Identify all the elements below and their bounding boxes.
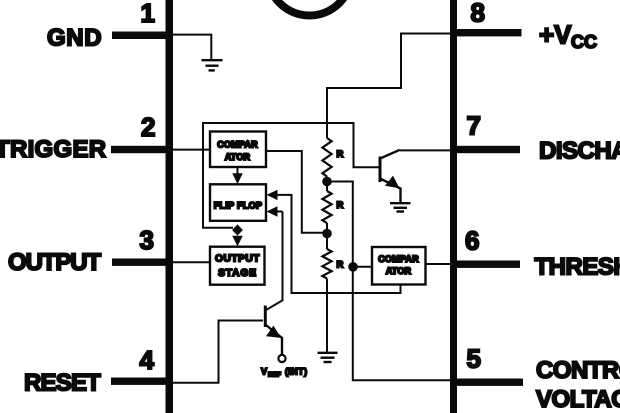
wire pin2 to comparator U1: [170, 149, 211, 151]
Q1 emitter arrowhead: [385, 176, 400, 189]
transistor Q2 (reset) base bar: [264, 306, 267, 328]
wire node to U2 input: [353, 266, 372, 268]
wire comparator U2 to pin 6: [425, 263, 453, 265]
wire flip flop node to Q1 base (feedback loop): [203, 123, 379, 228]
svg-text:TRIGGER: TRIGGER: [0, 136, 106, 163]
svg-text:CC: CC: [571, 32, 597, 52]
svg-text:STAGE: STAGE: [218, 268, 257, 279]
svg-text:R: R: [337, 260, 344, 271]
Q2 emitter: [265, 325, 282, 356]
resistor R1: [322, 138, 331, 177]
resistor R2: [322, 191, 331, 223]
arrowhead into flip flop (lower): [267, 206, 278, 216]
arrow U1 to flip flop: [237, 167, 239, 174]
IC package left edge: [166, 0, 174, 413]
svg-text:6: 6: [465, 226, 479, 256]
ground (Q1 emitter): [390, 203, 411, 211]
svg-text:1: 1: [141, 0, 155, 28]
transistor Q1 (discharge) base bar: [379, 157, 382, 183]
svg-text:V: V: [261, 366, 267, 376]
svg-text:OUTPUT: OUTPUT: [215, 254, 260, 265]
wire R3 to ground: [326, 279, 328, 353]
pin 1 lead: [112, 32, 170, 40]
svg-text:THRESHOLD: THRESHOLD: [535, 254, 620, 281]
svg-text:7: 7: [467, 111, 481, 141]
svg-text:DISCHARGE: DISCHARGE: [539, 138, 620, 165]
flip flop output node (diamond): [232, 224, 243, 235]
svg-text:CONTROL: CONTROL: [536, 357, 620, 384]
flip flop U3 box: [210, 184, 266, 221]
svg-text:R: R: [337, 149, 344, 160]
svg-text:RESET: RESET: [24, 370, 101, 397]
ground (pin 1): [202, 60, 223, 70]
svg-text:COMPAR: COMPAR: [378, 254, 419, 264]
svg-text:REF: REF: [268, 371, 281, 378]
svg-text:(INT): (INT): [285, 366, 308, 376]
svg-text:ATOR: ATOR: [386, 266, 412, 276]
resistor R3: [322, 249, 331, 279]
svg-text:COMPAR: COMPAR: [217, 140, 258, 150]
ground (divider bottom): [318, 353, 338, 362]
pin 3 lead: [112, 259, 170, 266]
svg-text:4: 4: [140, 345, 155, 375]
pin 5 lead: [453, 379, 523, 386]
svg-text:2: 2: [141, 112, 155, 142]
svg-text:FLIP FLOP: FLIP FLOP: [214, 200, 263, 210]
IC package right edge: [450, 0, 457, 413]
wire Q2 collector to flip flop (arrow): [266, 212, 283, 311]
wire pin4 to Q2 base: [170, 321, 263, 383]
Q2 emitter arrowhead: [266, 326, 281, 338]
svg-text:3: 3: [140, 225, 154, 255]
arrowhead into flip flop (upper): [267, 190, 278, 200]
output stage U4 box: [210, 247, 265, 285]
wire pin3 to output stage: [170, 261, 211, 263]
node R2/R3 junction: [322, 229, 332, 239]
svg-text:GND: GND: [47, 25, 102, 52]
svg-text:R: R: [337, 200, 344, 211]
arrow flip flop to output stage: [232, 236, 243, 247]
node comparator U2 input junction: [348, 262, 358, 272]
pin 2 lead: [111, 146, 170, 153]
wire Q1 collector to pin 7: [400, 149, 453, 151]
svg-text:+V: +V: [539, 20, 572, 50]
svg-text:8: 8: [471, 0, 485, 28]
Q1 collector: [380, 150, 400, 159]
wire U2 output to flip flop (arrow): [277, 195, 401, 293]
wire divider node to control voltage pin 5: [327, 182, 453, 381]
wire U1 right output to node at divider R2/R3 junction: [266, 151, 327, 233]
pin 6 lead: [453, 261, 520, 268]
wire R2 to R3: [326, 223, 328, 249]
svg-text:5: 5: [467, 344, 481, 374]
svg-text:OUTPUT: OUTPUT: [8, 249, 102, 276]
wire R1 to R2: [326, 177, 328, 192]
svg-text:VOLTAGE: VOLTAGE: [536, 386, 620, 413]
Vref terminal (open circle): [278, 355, 285, 362]
pin 4 lead: [111, 378, 170, 385]
pin 7 lead: [453, 146, 520, 153]
package notch: [268, 0, 352, 16]
pin 8 lead: [453, 29, 522, 36]
comparator U2 box: [372, 247, 426, 285]
svg-text:ATOR: ATOR: [225, 152, 251, 162]
node R1/R2 junction: [322, 177, 332, 187]
wire pin1 to ground: [170, 35, 211, 60]
Q1 emitter: [380, 179, 401, 203]
comparator U1 box: [210, 132, 266, 168]
wire Vcc rail: pin8 to divider top: [327, 34, 453, 139]
